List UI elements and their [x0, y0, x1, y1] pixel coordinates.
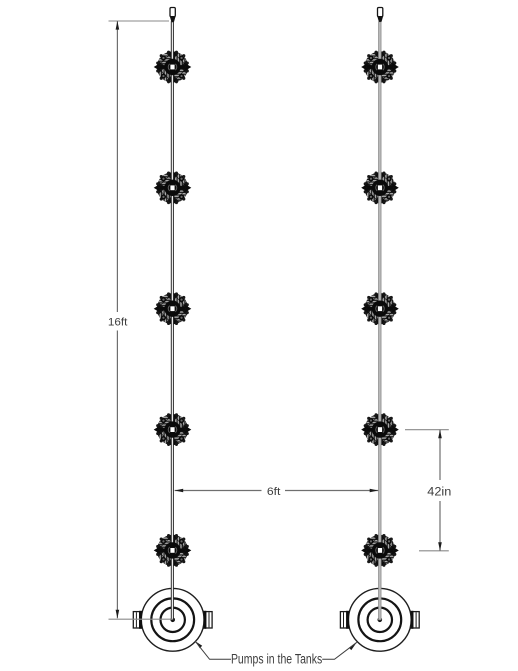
dimension 42in: top arrowhead	[438, 430, 442, 439]
dimension 6ft: left arrowhead	[175, 489, 184, 493]
spray head S10 hub	[372, 542, 388, 558]
spray head S6 hub	[372, 59, 388, 75]
svg-text:42in: 42in	[427, 486, 451, 498]
tank T2 (right, with pump)	[340, 588, 419, 651]
spray head S10 body (right pipe row 5)	[361, 533, 399, 568]
spray head S7 body (right pipe row 2)	[361, 171, 399, 206]
leader to tank T1 (arrowhead)	[195, 641, 202, 648]
spray head S1 hub	[164, 59, 180, 75]
dimension 16ft: label background	[104, 312, 132, 331]
spray head S1 body (left pipe row 1)	[154, 50, 192, 85]
spray head S4 body (left pipe row 4)	[154, 412, 192, 447]
dimension 6ft: right arrowhead	[370, 489, 379, 493]
spray head S9 body (right pipe row 4)	[361, 412, 399, 447]
svg-text:16ft: 16ft	[108, 317, 128, 329]
pipe P2 cap neck	[377, 17, 383, 22]
spray head S9 hub	[372, 421, 388, 437]
dimension 6ft: label background	[262, 481, 286, 499]
leader to tank T2 (line)	[322, 642, 357, 659]
spray head S8 hub	[372, 301, 388, 317]
dimension 6ft: horizontal dimension line	[175, 490, 379, 492]
spray head S2 body (left pipe row 2)	[154, 171, 192, 206]
spray head S5 hub	[164, 542, 180, 558]
pipe P1 top cap	[170, 8, 175, 17]
dimension 16ft: bottom arrowhead	[116, 610, 120, 619]
dimension 16ft: bottom extension line to tank centerline	[109, 618, 173, 620]
dimension 42in: vertical dimension line	[439, 430, 441, 551]
svg-text:6ft: 6ft	[267, 486, 281, 498]
leader to tank T2 (arrowhead)	[349, 642, 357, 650]
tank T1 (left, with pump)	[133, 588, 212, 651]
spray head S8 body (right pipe row 3)	[361, 291, 399, 326]
spray head S2 hub	[164, 180, 180, 196]
dimension 16ft: top arrowhead	[116, 21, 120, 30]
dimension 16ft: vertical dimension line	[116, 21, 118, 618]
pipe P2 top cap	[378, 8, 383, 17]
dimension 42in: top extension line	[405, 429, 449, 431]
svg-text:Pumps in the Tanks: Pumps in the Tanks	[231, 651, 322, 666]
spray head S7 hub	[372, 180, 388, 196]
spray head S5 body (left pipe row 5)	[154, 533, 192, 568]
dimension 42in: bottom extension line	[419, 550, 449, 552]
pipe P1 cap neck	[170, 17, 176, 22]
spray head S3 body (left pipe row 3)	[154, 291, 192, 326]
leader to tank T1 (line)	[195, 641, 231, 659]
dimension 16ft: top extension line	[109, 20, 170, 22]
spray head S4 hub	[164, 421, 180, 437]
spray head S6 body (right pipe row 1)	[361, 50, 399, 85]
dimension 42in: bottom arrowhead	[438, 542, 442, 551]
spray head S3 hub	[164, 301, 180, 317]
pipe P1 (left vertical riser)	[171, 22, 173, 620]
pipe P2 (right vertical riser)	[379, 22, 382, 620]
dimension 42in: label background	[424, 480, 455, 501]
